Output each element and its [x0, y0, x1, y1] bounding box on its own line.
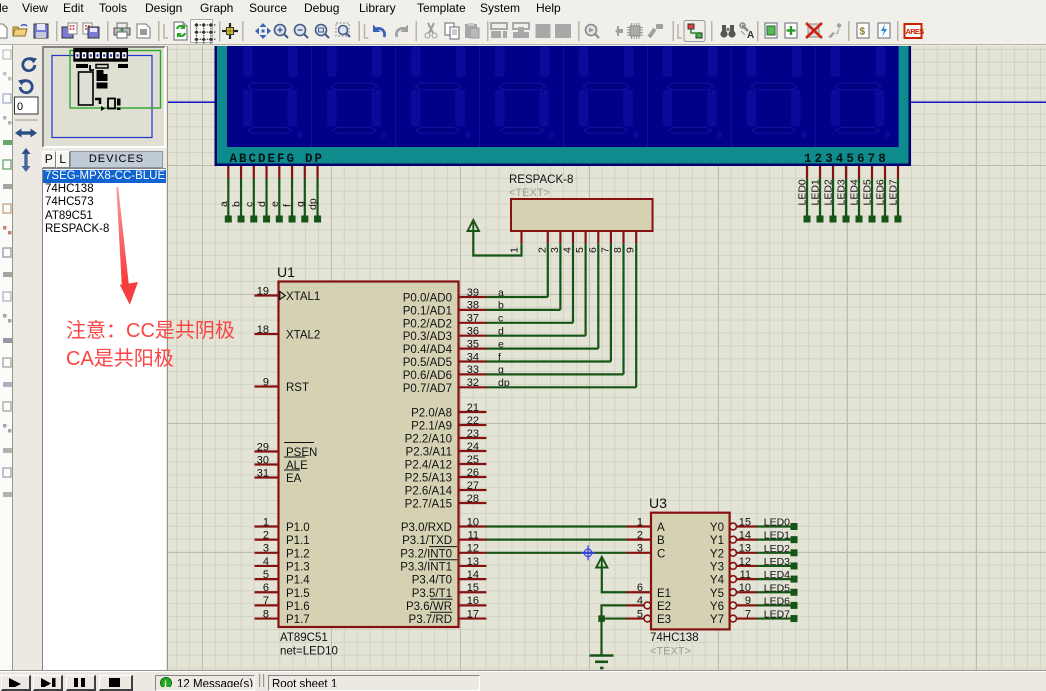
terminal LED4: [856, 216, 863, 223]
INT0 overline: [429, 546, 457, 548]
svg-text:23: 23: [467, 428, 479, 440]
digit 3 segments: [411, 46, 471, 138]
wire Y5 to LED5 terminal: [757, 591, 792, 593]
svg-text:13: 13: [467, 556, 479, 568]
ground symbol: [590, 656, 614, 669]
display digit pin 8 stub: [897, 166, 899, 179]
U3 pin 14 stub: [737, 539, 757, 541]
svg-text:P2.6/A14: P2.6/A14: [405, 486, 453, 498]
U3 pin 3 C stub: [627, 552, 652, 554]
toolbar icon property tool: [740, 23, 754, 41]
toolbar icon block2: [536, 24, 551, 38]
sheet border line left of display: [168, 101, 215, 103]
display digit pin 7 stub: [884, 166, 886, 179]
svg-text:P1.2: P1.2: [286, 548, 310, 560]
svg-text:5: 5: [263, 569, 269, 581]
wire respack pin 4 column: [572, 243, 574, 322]
U1 pin 14 P3.4/T0 stub: [459, 578, 487, 580]
svg-text:Y5: Y5: [710, 588, 724, 600]
U3 pin 13 stub: [737, 552, 757, 554]
U1 pin 19 XTAL1 stub: [255, 294, 279, 296]
svg-text:P1.7: P1.7: [286, 614, 310, 626]
preview viewport rect: [70, 51, 161, 109]
U1 pin 8 P1.7 stub: [255, 617, 279, 619]
toolbar icon redo: [396, 25, 408, 38]
wire Y2 to LED2 terminal: [757, 552, 792, 554]
wire respack pin1 to VCC: [473, 232, 521, 256]
U1 pin 34 P0.5/AD5 stub: [459, 360, 487, 362]
toolbar icon binoculars: [711, 21, 713, 41]
7-seg display teal frame: [217, 46, 909, 164]
svg-text:LED3: LED3: [764, 556, 790, 568]
respack pin 2 stub: [547, 231, 549, 243]
U1 pin 11 P3.1/TXD stub: [459, 539, 487, 541]
svg-text:6: 6: [637, 582, 643, 594]
left mode strip: [0, 45, 13, 672]
toolbar icon goto: [828, 23, 841, 38]
svg-text:LED2: LED2: [764, 543, 790, 555]
svg-text:dp: dp: [307, 198, 319, 210]
U1 pin 7 P1.6 stub: [255, 604, 279, 606]
digit separator line: [647, 46, 648, 147]
svg-text:2: 2: [536, 247, 548, 253]
svg-text:P3.6/WR: P3.6/WR: [406, 601, 452, 613]
toolbar icon cut: [425, 23, 437, 38]
toolbar icon pan: [255, 23, 271, 39]
svg-text:9: 9: [263, 376, 269, 388]
terminal LED3 right: [791, 562, 798, 569]
svg-text:LED5: LED5: [764, 582, 790, 594]
toolbar: [0, 16, 1046, 45]
power terminal VCC (U3): [596, 557, 607, 568]
U1 pin 10 P3.0/RXD stub: [459, 525, 487, 527]
wire LED4 to terminal: [858, 179, 860, 217]
svg-text:2: 2: [263, 529, 269, 541]
svg-text:XTAL1: XTAL1: [286, 291, 320, 303]
svg-text:LED3: LED3: [836, 179, 848, 205]
svg-text:15: 15: [467, 582, 479, 594]
U1 pin 2 P1.1 stub: [255, 539, 279, 541]
svg-text:16: 16: [467, 595, 479, 607]
U3 pin 7 Y7 bubble: [730, 615, 737, 622]
digit 2 segments: [327, 46, 387, 138]
display digit pin 5 stub: [858, 166, 860, 179]
U1 pin 24 P2.3/A11 stub: [459, 450, 487, 452]
toolbar button refresh: [164, 24, 168, 38]
red annotation overlay: [66, 314, 235, 343]
toolbar icon hammer: [647, 24, 663, 38]
svg-text:b: b: [231, 201, 243, 207]
wire Y1 to LED1 terminal: [757, 539, 792, 541]
svg-text:28: 28: [467, 493, 479, 505]
svg-text:Y1: Y1: [710, 535, 724, 547]
svg-text:12: 12: [467, 543, 479, 555]
svg-text:22: 22: [467, 415, 479, 427]
svg-text:4: 4: [263, 556, 269, 568]
7-seg display interior: [227, 46, 899, 147]
display digit pin 1 stub: [806, 166, 808, 179]
display segment pin dp stub: [316, 166, 318, 179]
svg-text:Y0: Y0: [710, 522, 724, 534]
U3 pin 12 stub: [737, 565, 757, 567]
svg-text:RESPACK-8: RESPACK-8: [509, 174, 573, 186]
toolbar icon paste: [465, 23, 479, 38]
U1 pin 4 P1.3 stub: [255, 565, 279, 567]
wire f P0 to respack: [487, 360, 611, 362]
wire e to terminal: [278, 179, 280, 217]
U1 pin 12 P3.2/INT0 stub: [459, 552, 487, 554]
svg-text:$: $: [860, 27, 866, 38]
wire respack pin 2 column: [547, 243, 549, 297]
svg-text:P2.1/A9: P2.1/A9: [411, 421, 452, 433]
terminal LED6: [882, 216, 889, 223]
svg-text:25: 25: [467, 454, 479, 466]
separator panel/canvas: [167, 46, 168, 672]
svg-text:P2.5/A13: P2.5/A13: [405, 473, 452, 485]
junction dot E3: [598, 615, 605, 622]
svg-text:Y7: Y7: [710, 614, 724, 626]
toolbar icon zoom all: [336, 23, 350, 37]
toolbar icon probe: [607, 26, 623, 36]
svg-text:29: 29: [257, 441, 269, 453]
svg-text:A: A: [657, 522, 665, 534]
rotate anticlockwise icon: [18, 79, 32, 93]
U1 pin 35 P0.4/AD4 stub: [459, 348, 487, 350]
svg-text:LED4: LED4: [764, 569, 790, 581]
svg-text:P1.4: P1.4: [286, 575, 310, 587]
svg-text:P1.0: P1.0: [286, 522, 310, 534]
origin marker: [581, 545, 596, 560]
U1 pin 22 P2.1/A9 stub: [459, 424, 487, 426]
toolbar icon erc: [878, 23, 890, 38]
svg-text:5: 5: [574, 247, 586, 253]
svg-text:U1: U1: [277, 264, 295, 280]
svg-text:P0.7/AD7: P0.7/AD7: [403, 383, 452, 395]
U1 pin 36 P0.3/AD3 stub: [459, 335, 487, 337]
U1 pin 18 XTAL2 stub: [255, 333, 279, 335]
svg-text:P3.3/INT1: P3.3/INT1: [400, 561, 452, 573]
preview digits: [75, 52, 126, 58]
angle edit box: [15, 97, 39, 114]
digit separator line: [815, 46, 816, 147]
display segment pin f stub: [291, 166, 293, 179]
U1 pin 6 P1.5 stub: [255, 591, 279, 593]
U1 pin 26 P2.5/A13 stub: [459, 476, 487, 478]
U1 pin 1 P1.0 stub: [255, 525, 279, 527]
wire f to terminal: [291, 179, 293, 217]
svg-text:P0.0/AD0: P0.0/AD0: [403, 293, 452, 305]
mirror vertical icon: [22, 148, 31, 172]
svg-text:P3.2/INT0: P3.2/INT0: [400, 548, 452, 560]
svg-text:P3.0/RXD: P3.0/RXD: [401, 522, 452, 534]
svg-text:9: 9: [745, 595, 751, 607]
wire LED5 to terminal: [871, 179, 873, 217]
preview display block: [73, 48, 128, 62]
wire c to terminal: [253, 179, 255, 217]
svg-text:U3: U3: [649, 495, 667, 511]
terminal d: [263, 216, 270, 223]
digit 7 segments: [747, 46, 807, 138]
svg-text:LED7: LED7: [764, 609, 790, 621]
svg-text:12: 12: [739, 556, 751, 568]
svg-text:37: 37: [467, 313, 479, 325]
svg-text:C: C: [657, 548, 665, 560]
terminal LED0 right: [791, 523, 798, 530]
toolbar icon zoom sel: [316, 25, 330, 39]
toolbar button grid: [191, 20, 213, 43]
terminal a: [225, 216, 232, 223]
svg-text:26: 26: [467, 467, 479, 479]
svg-text:B: B: [657, 535, 665, 547]
svg-text:3: 3: [263, 543, 269, 555]
svg-text:ABCDEFG: ABCDEFG: [230, 152, 297, 166]
respack pin 1 stub: [520, 231, 522, 243]
U1 pin 13 P3.3/INT1 stub: [459, 565, 487, 567]
U3 pin 7 stub: [737, 617, 757, 619]
ALE overline: [284, 456, 305, 458]
svg-text:5: 5: [637, 608, 643, 620]
svg-text:DP: DP: [305, 152, 324, 166]
svg-text:12 Message(s): 12 Message(s): [177, 679, 253, 688]
svg-text:7: 7: [263, 595, 269, 607]
wire dp to terminal: [316, 179, 318, 217]
svg-text:7: 7: [599, 247, 611, 253]
U3 pin 13 Y2 bubble: [730, 549, 737, 556]
wire b P0 to respack: [487, 309, 561, 311]
terminal LED2: [830, 216, 837, 223]
wire dp P0 to respack: [487, 386, 637, 388]
terminal LED0: [804, 216, 811, 223]
U3 pin 11 stub: [737, 578, 757, 580]
toolbar icon origin: [222, 23, 238, 39]
U1 pin 5 P1.4 stub: [255, 578, 279, 580]
preview U3 cluster: [95, 99, 100, 104]
grid dots: [194, 23, 215, 44]
svg-text:P3.5/T1: P3.5/T1: [412, 588, 452, 600]
svg-text:P1.6: P1.6: [286, 601, 310, 613]
svg-text:f: f: [282, 204, 294, 207]
svg-text:27: 27: [467, 480, 479, 492]
terminal dp: [314, 216, 321, 223]
toolbar icon new: [0, 24, 7, 38]
digit separator line: [563, 46, 564, 147]
toolbar icon ARES: [905, 24, 925, 38]
mode strip icons (cropped): [3, 50, 12, 497]
preview U1 outline: [79, 72, 94, 105]
U1 pin 32 P0.7/AD7 stub: [459, 386, 487, 388]
wire LED6 to terminal: [884, 179, 886, 217]
wire a P0 to respack: [487, 296, 548, 298]
toolbar icon sheet chip: [765, 23, 777, 38]
svg-text:P0.1/AD1: P0.1/AD1: [403, 305, 452, 317]
svg-text:1: 1: [637, 516, 643, 528]
respack pin 5 stub: [584, 231, 586, 243]
svg-text:18: 18: [257, 324, 269, 336]
U3 pin 11 Y4 bubble: [730, 576, 737, 583]
toolbar icon block2: [555, 24, 571, 38]
svg-text:Y6: Y6: [710, 601, 724, 613]
toolbar icon zoom in: [275, 25, 289, 39]
U3 pin 14 Y1 bubble: [730, 536, 737, 543]
svg-text:34: 34: [467, 351, 479, 363]
terminal LED7 right: [791, 615, 798, 622]
menu bar: [0, 0, 1046, 16]
U3 pin 9 Y6 bubble: [730, 602, 737, 609]
svg-text:10: 10: [467, 516, 479, 528]
svg-text:E2: E2: [657, 601, 671, 613]
U3 pin 1 A stub: [627, 525, 652, 527]
step button glyph: [41, 678, 51, 689]
U3 pin 12 Y3 bubble: [730, 563, 737, 570]
U1 pin 31 EA stub: [255, 476, 279, 478]
U3 pin 5 E3 stub with bubble: [627, 617, 645, 619]
svg-text:15: 15: [739, 516, 751, 528]
separator: [15, 119, 38, 121]
wire respack pin 8 column: [622, 243, 624, 374]
svg-text:11: 11: [740, 569, 751, 581]
svg-text:XTAL2: XTAL2: [286, 330, 320, 342]
U3 pin 10 stub: [737, 591, 757, 593]
U1 pin 37 P0.2/AD2 stub: [459, 322, 487, 324]
wire P3.0 to U3 A: [487, 525, 627, 527]
terminal c: [250, 216, 257, 223]
wire LED0 to terminal: [806, 179, 808, 217]
toolbar icon import: [62, 23, 77, 38]
preview respack cluster: [96, 65, 108, 69]
display segment pin d stub: [265, 166, 267, 179]
svg-text:P2.2/A10: P2.2/A10: [405, 434, 452, 446]
svg-text:13: 13: [739, 543, 751, 555]
EA overline: [284, 469, 300, 471]
wire E2 to ground column: [602, 605, 627, 655]
U1 pin 38 P0.1/AD1 stub: [459, 309, 487, 311]
U1 pin 28 P2.7/A15 stub: [459, 502, 487, 504]
svg-text:33: 33: [467, 364, 479, 376]
svg-text:P0.5/AD5: P0.5/AD5: [403, 357, 452, 369]
svg-text:EA: EA: [286, 473, 302, 485]
sheet border line right of display: [911, 101, 1046, 103]
svg-text:AT89C51: AT89C51: [280, 632, 328, 644]
wire Y4 to LED4 terminal: [757, 578, 792, 580]
toolbar icon mark output: [137, 24, 150, 38]
svg-text:38: 38: [467, 300, 479, 312]
respack pin 3 stub: [559, 231, 561, 243]
WR overline: [430, 598, 453, 600]
schematic canvas: [168, 46, 1046, 672]
svg-text:0: 0: [17, 101, 23, 113]
toolbar icon bom: [857, 23, 869, 38]
toolbar separator: [56, 21, 58, 41]
U3 pin 15 stub: [737, 525, 757, 527]
microcontroller U1 AT89C51 body: [279, 282, 459, 628]
svg-text:2: 2: [637, 529, 643, 541]
svg-text:8: 8: [612, 247, 624, 253]
preview sheet rect: [52, 56, 152, 138]
terminal LED1 right: [791, 536, 798, 543]
svg-text:RST: RST: [286, 382, 309, 394]
terminal LED7: [895, 216, 902, 223]
toolbar icon export: [83, 23, 99, 38]
wire Y7 to LED7 terminal: [757, 617, 792, 619]
U1 pin 39 P0.0/AD0 stub: [459, 296, 487, 298]
terminal LED1: [817, 216, 824, 223]
U1 pin 33 P0.6/AD6 stub: [459, 373, 487, 375]
terminal f: [289, 216, 296, 223]
INT1 overline: [429, 559, 457, 561]
svg-text:E3: E3: [657, 614, 671, 626]
U3 pin 10 Y5 bubble: [730, 589, 737, 596]
RD overline: [430, 611, 453, 613]
U1 pin 15 P3.5/T1 stub: [459, 591, 487, 593]
terminal LED5 right: [791, 589, 798, 596]
svg-text:<TEXT>: <TEXT>: [509, 187, 550, 199]
display segment pin e stub: [278, 166, 280, 179]
respack pin 9 stub: [635, 231, 637, 243]
toolbar icon zoom out: [295, 25, 309, 39]
respack pin 4 stub: [572, 231, 574, 243]
svg-text:P0.2/AD2: P0.2/AD2: [403, 318, 452, 330]
svg-text:P3.7/RD: P3.7/RD: [409, 614, 452, 626]
svg-text:8: 8: [263, 608, 269, 620]
preview window: [42, 46, 166, 148]
svg-text:P2.3/A11: P2.3/A11: [406, 447, 452, 459]
wire a to terminal: [227, 179, 229, 217]
svg-text:LED1: LED1: [764, 530, 790, 542]
toolbar icon print: [114, 23, 130, 38]
svg-text:LED7: LED7: [888, 179, 900, 205]
wire Y3 to LED3 terminal: [757, 565, 792, 567]
resistor pack RN1 body: [511, 199, 653, 231]
svg-text:3: 3: [637, 543, 643, 555]
svg-text:17: 17: [467, 608, 479, 620]
svg-text:c: c: [243, 202, 255, 207]
P L DEVICES header: [42, 151, 167, 168]
display digit pin 6 stub: [871, 166, 873, 179]
power terminal VCC (respack): [468, 220, 479, 231]
svg-text:35: 35: [467, 338, 479, 350]
digit separator line: [395, 46, 396, 147]
svg-text:P1.5: P1.5: [286, 588, 310, 600]
svg-text:LED5: LED5: [862, 179, 874, 205]
U1 XTAL1 clock symbol: [280, 292, 286, 300]
svg-text:4: 4: [637, 595, 643, 607]
wire g to terminal: [304, 179, 306, 217]
toolbar icon zoom play: [586, 25, 600, 39]
display segment pin b stub: [240, 166, 242, 179]
svg-text:E1: E1: [657, 588, 671, 600]
display segment pin c stub: [253, 166, 255, 179]
wire d P0 to respack: [487, 335, 586, 337]
display digit pin 4 stub: [845, 166, 847, 179]
wire d to terminal: [265, 179, 267, 217]
wire LED1 to terminal: [819, 179, 821, 217]
svg-text:7: 7: [745, 608, 751, 620]
wire respack pin 5 column: [584, 243, 586, 335]
statusbar separators: [259, 674, 260, 687]
U1 pin 29 PSEN stub: [255, 450, 279, 452]
svg-text:1: 1: [509, 247, 521, 253]
toolbar icon save: [34, 24, 48, 38]
toolbar button route: [684, 21, 705, 42]
toolbar icon open: [13, 25, 27, 36]
devices list: [42, 168, 166, 672]
svg-text:LED6: LED6: [764, 595, 790, 607]
U1 pin 27 P2.6/A14 stub: [459, 489, 487, 491]
svg-text:A: A: [747, 30, 754, 41]
U3 pin 6 E1 stub: [627, 591, 652, 593]
toolbar icon copy: [445, 23, 459, 39]
svg-text:Y3: Y3: [710, 561, 724, 573]
